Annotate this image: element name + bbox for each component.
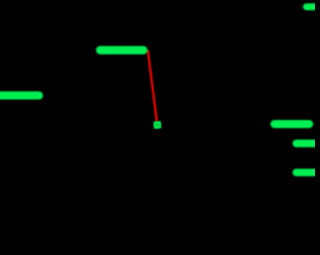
green pill right 3 xyxy=(293,169,320,177)
green pill right 1 xyxy=(271,120,314,128)
green pill left edge xyxy=(0,91,43,99)
green pill right 2 xyxy=(293,140,320,148)
player square darker inner xyxy=(155,123,159,127)
green pill top-center xyxy=(96,46,148,54)
player green square xyxy=(153,121,161,129)
green pill top-right corner xyxy=(303,3,320,10)
red laser line xyxy=(148,50,157,122)
